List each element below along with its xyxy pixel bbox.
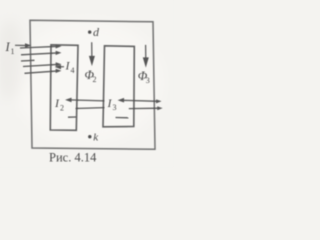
paper background	[0, 0, 173, 167]
core outer outline	[30, 20, 155, 149]
coil W1 turn 2 on left leg	[21, 52, 60, 55]
coil W4 turn 1 on left leg	[23, 63, 60, 66]
coil W3 turn 2 on right leg	[129, 107, 161, 109]
coil W2 turn 2 on middle leg	[76, 107, 105, 110]
svg-text:3: 3	[113, 103, 117, 112]
coil W1 turn 1 on left leg	[20, 45, 60, 48]
left window	[50, 45, 78, 131]
node k dot	[88, 135, 91, 138]
node d dot	[88, 30, 91, 33]
label I2	[54, 96, 64, 113]
svg-text:d: d	[93, 25, 100, 39]
winding crossing knots	[50, 46, 155, 110]
svg-text:4: 4	[71, 66, 75, 75]
coil W4 turn 2 on left leg	[25, 70, 60, 74]
label I3	[107, 96, 117, 112]
flux Phi3 arrow (down)	[144, 45, 148, 66]
svg-text:2: 2	[93, 75, 97, 84]
label I1	[5, 40, 15, 56]
coil W2 turn 1 on middle leg with I2 arrow	[67, 99, 105, 102]
coil W2 lead stub	[68, 116, 76, 118]
label I4	[65, 59, 75, 76]
label Phi2	[85, 68, 97, 84]
svg-text:1: 1	[11, 47, 15, 56]
flux Phi2 arrow (down)	[90, 42, 94, 64]
svg-text:2: 2	[60, 104, 64, 113]
coil W1 lead stub	[21, 59, 35, 62]
coil W3 lead stub	[116, 117, 129, 119]
svg-text:Рис. 4.14: Рис. 4.14	[49, 151, 97, 165]
current I4 arrow	[57, 66, 65, 69]
label Phi3	[138, 69, 150, 85]
current I1 arrow	[15, 44, 30, 47]
coil W3 turn 1 on right leg with I3 arrow	[120, 99, 160, 103]
right window	[103, 46, 134, 127]
svg-text:3: 3	[146, 76, 150, 85]
